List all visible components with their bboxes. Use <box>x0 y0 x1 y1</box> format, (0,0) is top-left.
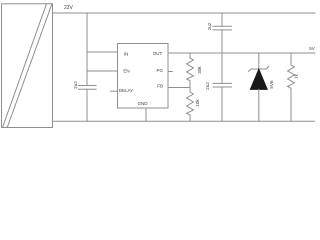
svg-text:2u2: 2u2 <box>205 82 210 90</box>
zener diode D1 triangle <box>250 69 267 89</box>
wire IN pin <box>87 51 118 53</box>
solar panel PV1 <box>2 4 53 128</box>
svg-text:OUT: OUT <box>153 51 163 56</box>
wire C3 lower <box>221 87 223 121</box>
wire GND pin <box>145 108 147 121</box>
capacitor C1 plates <box>79 85 97 87</box>
capacitor C2 plates <box>213 25 232 27</box>
svg-text:DELAY: DELAY <box>119 88 133 93</box>
capacitor C3 branch upper <box>221 53 223 83</box>
wire PG stub <box>168 71 172 73</box>
wire input branch upper <box>86 13 88 86</box>
resistor R3 1k <box>288 53 295 121</box>
wire bottom ground rail <box>53 120 315 122</box>
panel diagonal 1 <box>3 4 47 128</box>
svg-text:GND: GND <box>138 101 149 106</box>
wire C2 to 5V rail <box>221 30 223 53</box>
svg-text:10k: 10k <box>195 99 200 107</box>
svg-text:22V: 22V <box>64 5 74 11</box>
svg-text:30k: 30k <box>197 66 202 74</box>
svg-text:PG: PG <box>156 68 163 73</box>
wire DELAY stub <box>111 90 118 92</box>
svg-text:IN: IN <box>124 51 128 56</box>
op-amp U1 regulator box <box>118 44 169 109</box>
svg-text:EN: EN <box>123 68 129 73</box>
svg-text:FB: FB <box>157 84 163 89</box>
panel diagonal 2 <box>7 4 52 128</box>
wire top rail 22V <box>53 12 316 14</box>
capacitor C3 plates <box>213 82 232 84</box>
wire FB <box>168 87 190 89</box>
svg-text:2u2: 2u2 <box>207 22 212 30</box>
svg-text:1k: 1k <box>294 73 299 79</box>
resistor R2 10k <box>187 88 194 122</box>
wire EN pin <box>87 70 118 72</box>
zener diode D1 cathode bar <box>249 66 269 71</box>
wire 5V output rail <box>168 52 315 54</box>
svg-text:5V6: 5V6 <box>269 80 274 89</box>
svg-text:2u2: 2u2 <box>73 81 78 89</box>
resistor R1 30k <box>187 53 194 88</box>
wire zener branch lower <box>258 89 260 121</box>
wire zener branch upper <box>258 53 260 69</box>
svg-text:5V: 5V <box>309 46 315 51</box>
capacitor C2 branch upper <box>221 13 223 26</box>
wire input branch lower <box>86 89 88 121</box>
